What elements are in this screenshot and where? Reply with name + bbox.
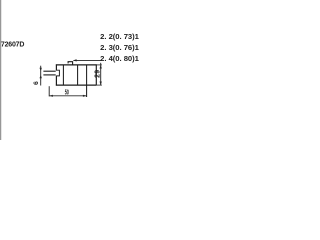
internal line 3 / extension for 50 dim: [86, 65, 88, 97]
dim 29 bottom extension: [96, 84, 102, 86]
lead tab top line: [43, 70, 55, 72]
dim 29 top extension: [96, 64, 102, 66]
page background: [0, 0, 140, 140]
dim 50 left extension: [48, 86, 50, 96]
svg-text:2. 2(0. 73)1: 2. 2(0. 73)1: [100, 32, 139, 41]
leader line to top tab: [73, 59, 101, 61]
dim 29 top arrowhead (up): [100, 65, 102, 69]
dim 50 line: [49, 95, 86, 97]
svg-text:6: 6: [33, 81, 40, 85]
body left edge lower: [55, 76, 57, 86]
body top edge: [56, 64, 97, 66]
internal line 1: [62, 65, 64, 85]
dim 29 bottom arrowhead (down): [100, 82, 102, 86]
svg-text:2. 4(0. 80)1: 2. 4(0. 80)1: [100, 54, 139, 63]
svg-text:29: 29: [95, 70, 102, 78]
svg-text:50: 50: [65, 89, 70, 97]
left page border line: [0, 0, 2, 140]
lead tab bottom line: [43, 74, 55, 76]
dim 6 line: [40, 66, 42, 86]
leader arrowhead: [73, 59, 77, 61]
dim 6 upper arrowhead (down): [40, 68, 42, 71]
dim 29 line: [100, 63, 102, 86]
internal line 2: [77, 65, 79, 85]
svg-text:2. 3(0. 76)1: 2. 3(0. 76)1: [100, 43, 139, 52]
dim 50 right arrowhead: [83, 95, 87, 97]
dim 6 lower arrowhead (up): [40, 75, 42, 78]
top tab (small protrusion): [68, 62, 73, 65]
body bottom edge: [56, 84, 96, 86]
notch in left edge: [56, 70, 59, 76]
body right edge: [95, 64, 97, 85]
body left edge upper: [55, 64, 57, 70]
dim 50 left arrowhead: [49, 95, 53, 97]
svg-text:72607D: 72607D: [1, 42, 24, 49]
